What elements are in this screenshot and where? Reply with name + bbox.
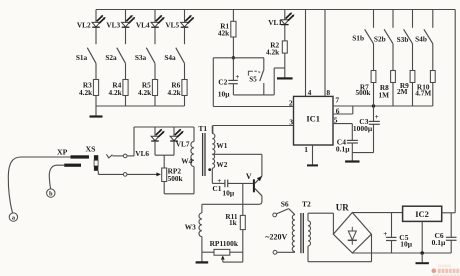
svg-text:T1: T1 [198, 124, 207, 133]
svg-text:VL1: VL1 [268, 18, 282, 27]
resistor R3 4.2k [79, 80, 99, 97]
transformer T2 secondary winding [308, 221, 311, 246]
probe terminal a [9, 213, 17, 222]
wire: XS sleeve to RP2 wiper [98, 171, 123, 175]
potentiometer RP1 100k [202, 239, 243, 255]
wire: bottom line up to R2 ground node [274, 68, 285, 95]
wire: LED box bottom line [155, 154, 174, 156]
svg-text:S1b: S1b [352, 34, 364, 43]
bridge rectifier UR [333, 202, 371, 253]
ground (left LED group) [90, 106, 103, 117]
svg-text:S1a: S1a [76, 53, 88, 62]
wire: bridge DC+ to IC2 input [352, 212, 402, 214]
ground (W3 / RP1) [196, 252, 209, 262]
resistor R8 1M [378, 71, 395, 100]
wire: VL6 cathode [154, 141, 156, 155]
decorative watermark (not labelled further) [432, 265, 460, 276]
pin 8 label [326, 88, 330, 97]
wire: VL5 cathode to switch S4a [184, 27, 186, 44]
svg-text:2M: 2M [397, 87, 408, 96]
svg-text:C1: C1 [212, 184, 221, 193]
wire: box to RP2 [163, 155, 165, 168]
wire: S3a to resistor R5 [154, 63, 156, 79]
LED VL5 [165, 15, 194, 29]
potentiometer RP2 500k [162, 166, 184, 183]
winding W3 [185, 204, 202, 252]
wire: ground rail under R3-R6 [96, 105, 185, 107]
wire: rail to R1 [232, 10, 234, 22]
wire: secondary bottom to bridge AC2 [308, 234, 372, 262]
svg-text:+: + [383, 230, 387, 238]
capacitor C1 10u [212, 177, 235, 198]
svg-text:a: a [12, 215, 15, 222]
svg-text:4: 4 [308, 88, 312, 97]
switch S1a [76, 48, 96, 64]
wire: rail to VL5 anode [184, 10, 186, 23]
winding W4 [181, 127, 194, 167]
switch S2b [374, 29, 393, 43]
wire: rail to VL3 anode [125, 10, 127, 23]
wire: terminal to RP2 arrow [127, 172, 161, 176]
wire: VL6 branch [154, 127, 156, 136]
ground (power supply) [416, 253, 429, 263]
wire: pin 1 to ground [304, 145, 312, 164]
wire: top supply rail [96, 9, 455, 11]
svg-text:42k: 42k [218, 28, 230, 37]
pushbutton S5 [248, 58, 263, 95]
transformer T2 primary winding [292, 215, 295, 252]
LED VL3 [106, 15, 135, 29]
svg-text:3: 3 [289, 118, 293, 127]
wire: S3b to resistor R9 [412, 44, 414, 71]
mains terminal (bottom) [273, 250, 277, 254]
svg-text:4.2k: 4.2k [79, 88, 93, 97]
svg-text:S4a: S4a [164, 53, 176, 62]
wire: probe a lead [8, 157, 70, 213]
svg-text:6: 6 [336, 106, 340, 115]
svg-text:XS: XS [86, 145, 96, 154]
XS tip contact [106, 154, 112, 158]
svg-text:1: 1 [304, 145, 308, 154]
svg-text:V: V [246, 172, 252, 181]
svg-text:8: 8 [326, 88, 330, 97]
svg-text:10µ: 10µ [400, 240, 413, 249]
svg-text:b: b [49, 191, 53, 198]
svg-text:XP: XP [57, 148, 68, 157]
socket XS [86, 145, 99, 171]
wire: rail to IC1 pin 4 [305, 10, 307, 97]
svg-text:S2a: S2a [105, 53, 117, 62]
wire: VL1 to R2 [284, 25, 286, 41]
label ~220V [265, 233, 287, 242]
wire: R8 to pin7 bus [392, 83, 394, 107]
wire: C3 return to ground node [352, 124, 373, 152]
wire: bottom mains to T2 primary [277, 251, 295, 253]
svg-text:2: 2 [289, 98, 293, 107]
resistor R11 1k [225, 212, 245, 229]
svg-text:4.7M: 4.7M [415, 88, 431, 97]
wire: XS tip to VL6 node [112, 155, 123, 157]
resistor R7 500k [355, 71, 375, 98]
probe terminal b [47, 189, 55, 198]
svg-text:1M: 1M [378, 90, 389, 99]
ground (R2 / S5 return) [277, 77, 293, 79]
svg-text:VL5: VL5 [165, 20, 179, 29]
terminal (tip wire) [123, 154, 127, 158]
wire: W1/W2 tap to emitter [212, 153, 262, 155]
wire: C1 to base [228, 182, 253, 184]
svg-text:10µ: 10µ [222, 188, 235, 197]
svg-text:+: + [235, 73, 239, 81]
wire: LED box top line [134, 126, 194, 128]
resistor R2 4.2k [266, 41, 287, 57]
wire: VL2 cathode to switch S1a [95, 27, 97, 44]
wire: R7 to pin7 bus [373, 83, 375, 107]
switch S3a [135, 48, 155, 64]
svg-text:S3a: S3a [135, 53, 147, 62]
svg-text:W4: W4 [181, 157, 192, 166]
svg-text:1000µ: 1000µ [353, 124, 373, 133]
terminal (sleeve wire) [123, 173, 127, 177]
wire: pin 5 line [333, 116, 352, 125]
svg-text:W3: W3 [185, 222, 196, 231]
wire: rail to switch S3b [412, 10, 414, 28]
wire: S4b to resistor R10 [432, 44, 434, 71]
capacitor C4 0.1u [336, 124, 358, 154]
switch S2a [105, 48, 125, 64]
switch S1b [352, 29, 373, 43]
node: W2 polarity dot [208, 168, 211, 171]
svg-text:W1: W1 [216, 141, 227, 150]
wire: S1b to resistor R7 [373, 44, 375, 71]
wire: C2/S5 bottom line [233, 94, 274, 96]
winding W2 [212, 154, 227, 169]
wire: pin 6 tie to pin 7 [333, 106, 353, 115]
svg-text:7: 7 [335, 96, 339, 105]
ground (C3/C4) [345, 153, 359, 162]
svg-text:4.2k: 4.2k [138, 88, 152, 97]
wire: S4a to resistor R6 [184, 63, 186, 79]
svg-text:T2: T2 [302, 200, 311, 209]
svg-text:+: + [375, 113, 379, 121]
wire: RP2 to W4 bottom [164, 167, 194, 194]
wire: rail to switch S4b [432, 10, 434, 28]
pin 4 label [308, 88, 312, 97]
wire: pin 3 line [213, 118, 294, 127]
svg-text:1k: 1k [229, 218, 238, 227]
wire: rail to switch S2b [392, 10, 394, 28]
svg-text:S2b: S2b [374, 34, 386, 43]
wire: transistor bottom to W3 line [202, 196, 262, 205]
resistor R9 2M [397, 71, 415, 97]
wire: rail to VL4 anode [154, 10, 156, 23]
node: pin7 bus / C3 junction [372, 104, 375, 107]
svg-text:5: 5 [334, 116, 338, 125]
wire: R10 to pin7 bus [432, 83, 434, 107]
wire: R9 to pin7 bus [412, 83, 414, 107]
svg-text:10µ: 10µ [218, 90, 231, 99]
wire: VL3 cathode to switch S2a [125, 27, 127, 44]
capacitor C6 0.1u [432, 213, 457, 253]
wire: R5 to ground rail [154, 96, 156, 107]
wire: rail to VL1 [284, 10, 286, 20]
wire: R4 to ground rail [125, 96, 127, 107]
svg-text:0.1µ: 0.1µ [336, 145, 350, 154]
wire: VL4 cathode to switch S3a [154, 27, 156, 44]
ground (IC1 pin 1) [307, 164, 318, 166]
wire: base node down to R11 [242, 183, 244, 215]
switch S4b [415, 29, 433, 43]
wire: S1a to resistor R3 [95, 63, 97, 79]
transformer T2 core [301, 200, 311, 254]
transformer T1 core [198, 124, 207, 176]
svg-text:500k: 500k [168, 174, 184, 183]
svg-text:W2: W2 [216, 160, 227, 169]
svg-text:500k: 500k [355, 88, 371, 97]
wire: pin 2 line [213, 98, 293, 107]
wire: R6 to ground rail [184, 96, 186, 107]
LED VL4 [136, 15, 165, 29]
wire: rail to switch S1b [373, 10, 375, 28]
svg-text:VL6: VL6 [135, 149, 149, 158]
winding W1 [212, 126, 227, 155]
wire: IC2 ground pin [421, 221, 423, 253]
node: R1/C2/S5 junction [232, 56, 235, 59]
resistor R4 4.2k [109, 80, 129, 97]
wire: R11 to RP1 wiper [242, 230, 244, 263]
switch S3b [397, 29, 413, 44]
svg-text:UR: UR [336, 202, 349, 212]
switch S4a [164, 48, 184, 64]
resistor R6 4.2k [168, 80, 188, 97]
resistor R10 4.7M [415, 71, 435, 98]
svg-text:VL4: VL4 [136, 20, 150, 29]
regulator IC2 [403, 206, 442, 221]
wire: R3 to ground rail [95, 96, 97, 107]
wire: R2 to ground [284, 53, 286, 77]
wire: S2a to resistor R4 [125, 63, 127, 79]
wire: R1 to node C2 [232, 37, 234, 58]
svg-text:VL3: VL3 [106, 20, 120, 29]
LED VL2 [77, 15, 106, 29]
svg-text:C2: C2 [218, 77, 227, 86]
wire: secondary top to bridge AC1 [308, 213, 333, 234]
svg-text:IC1: IC1 [306, 114, 320, 124]
op-amp/timer IC1 [294, 96, 334, 145]
resistor R5 4.2k [138, 80, 158, 97]
svg-text:~220V: ~220V [265, 233, 287, 242]
wire: probe b lead [49, 165, 64, 189]
LED VL6 [135, 129, 164, 159]
wire: tap down to transistor top [261, 154, 263, 176]
wire: rail to VL2 anode [95, 10, 97, 23]
wire: C2 box top line [213, 57, 264, 59]
svg-text:S5: S5 [249, 76, 257, 84]
resistor R1 42k [218, 21, 236, 37]
RP1 wiper arrow [221, 255, 243, 262]
wire: terminal to VL6/VL7 box [127, 127, 134, 156]
wire: S2b to resistor R8 [392, 44, 394, 71]
wire: IC2 output [442, 212, 456, 214]
svg-text:VL2: VL2 [77, 20, 91, 29]
wire: rail to IC1 pin 8 [324, 10, 326, 97]
switch S6 [273, 200, 295, 217]
wire: W2 bottom to C1 [212, 168, 225, 183]
svg-text:0.1µ: 0.1µ [432, 238, 446, 247]
svg-text:IC2: IC2 [415, 209, 429, 219]
wire: VL7 cathode [173, 141, 175, 155]
wire: IC2 output up to top rail [454, 10, 456, 213]
LED VL1 [268, 12, 294, 26]
wire: VL7 branch [173, 127, 175, 136]
capacitor C5 10u [383, 213, 413, 253]
svg-text:S3b: S3b [397, 35, 409, 44]
svg-text:RP1100k: RP1100k [210, 239, 239, 248]
LED VL7 [170, 129, 190, 149]
svg-text:S6: S6 [281, 200, 289, 209]
wire: C2 box left side down to IC1 pin2 [212, 58, 214, 107]
plug XP (two blades) [57, 148, 89, 167]
wire: DC- rail [352, 252, 451, 254]
wire: pin 7 line / timing bus [333, 96, 433, 106]
svg-text:4.2k: 4.2k [266, 48, 280, 57]
wire: pin 3 down to W1 [212, 126, 214, 134]
svg-text:4.2k: 4.2k [109, 88, 123, 97]
svg-text:VL7: VL7 [176, 139, 190, 148]
transistor V [246, 172, 262, 196]
capacitor C2 10u [218, 58, 240, 99]
capacitor C3 1000u [353, 106, 380, 133]
svg-text:S4b: S4b [415, 35, 427, 44]
svg-text:4.2k: 4.2k [168, 88, 182, 97]
node: ground rail junction [420, 251, 424, 255]
